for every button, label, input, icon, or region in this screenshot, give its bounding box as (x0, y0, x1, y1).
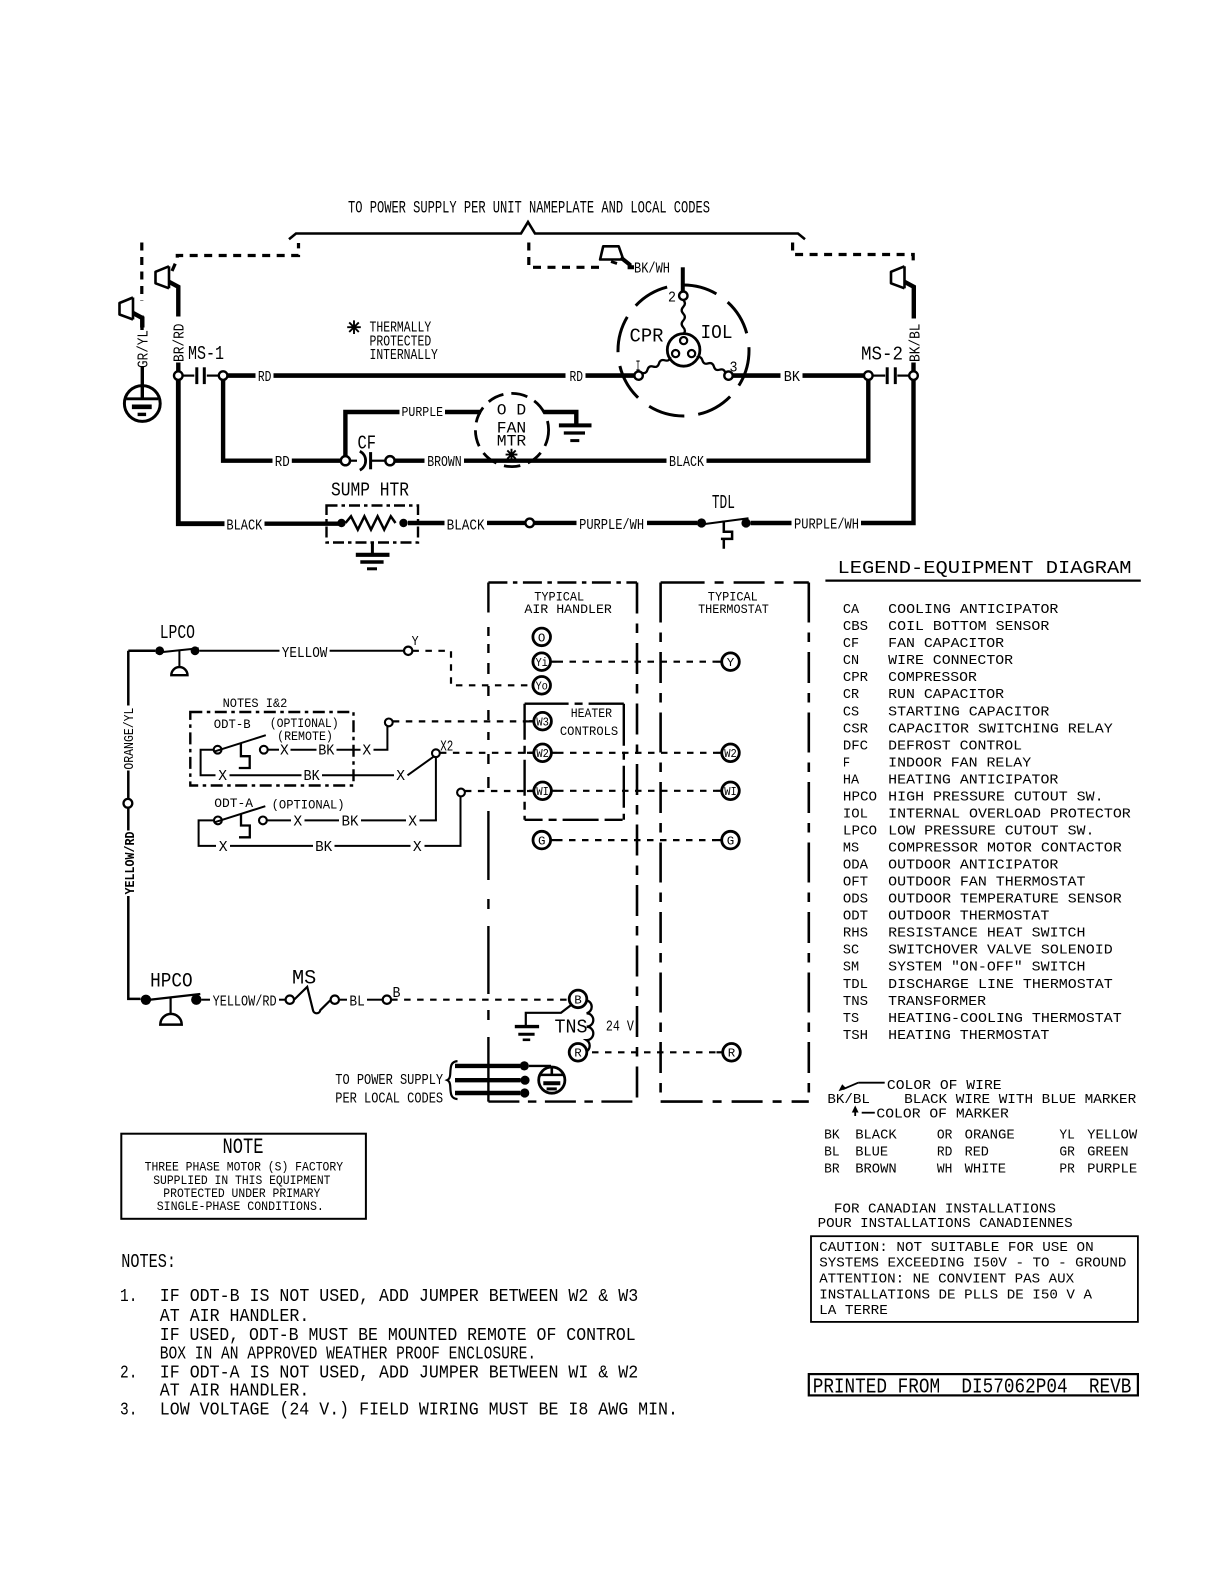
svg-text:INDOOR FAN RELAY: INDOOR FAN RELAY (888, 755, 1031, 771)
svg-text:WI: WI (724, 785, 737, 799)
wire to X2 (408, 756, 435, 776)
terminal YO air-handler (533, 677, 551, 695)
wire BK/WH to CPR terminal 2 (681, 267, 685, 291)
svg-text:MS-2: MS-2 (861, 344, 903, 366)
svg-text:TO POWER SUPPLY: TO POWER SUPPLY (335, 1071, 443, 1089)
svg-text:IF ODT-B IS NOT USED, ADD JUMP: IF ODT-B IS NOT USED, ADD JUMPER BETWEEN… (160, 1287, 638, 1307)
wire ODT-A out c (361, 819, 406, 821)
motor OD FAN MTR (475, 393, 548, 466)
heater SUMP HTR (327, 506, 419, 543)
svg-text:W2: W2 (724, 747, 737, 761)
svg-text:HIGH PRESSURE CUTOUT SW.: HIGH PRESSURE CUTOUT SW. (888, 789, 1103, 805)
svg-text:3.: 3. (120, 1401, 137, 1421)
svg-text:NOTES:: NOTES: (121, 1251, 176, 1273)
svg-text:2: 2 (668, 289, 676, 307)
svg-text:OUTDOOR ANTICIPATOR: OUTDOOR ANTICIPATOR (888, 858, 1059, 874)
wire to LPCO (128, 650, 155, 653)
coil MS (294, 987, 331, 1013)
connector CN flag BR/RD (156, 266, 179, 316)
winding CPR 2 (682, 300, 685, 334)
svg-text:ORANGE: ORANGE (965, 1128, 1015, 1144)
enclosure TYPICAL AIR HANDLER (488, 583, 637, 1102)
svg-text:TSH: TSH (843, 1028, 868, 1044)
power supply bracket (289, 222, 805, 239)
wire YELLOW b (330, 650, 404, 652)
svg-text:BK: BK (342, 813, 360, 831)
svg-text:MS: MS (292, 968, 316, 991)
svg-text:BK: BK (784, 368, 801, 386)
svg-text:BK: BK (304, 767, 321, 785)
svg-text:CAPACITOR SWITCHING RELAY: CAPACITOR SWITCHING RELAY (888, 721, 1113, 737)
wire dashed R row (592, 1051, 717, 1053)
svg-text:RESISTANCE HEAT SWITCH: RESISTANCE HEAT SWITCH (888, 926, 1085, 942)
svg-text:WH: WH (937, 1161, 953, 1177)
wire ODT-A lower BK b (335, 845, 411, 847)
wire ODT-B lower BK b (322, 774, 394, 776)
svg-text:SYSTEMS EXCEEDING I50V - TO -: SYSTEMS EXCEEDING I50V - TO - GROUND (819, 1256, 1126, 1272)
svg-text:X: X (408, 813, 417, 831)
svg-text:BK/BL: BK/BL (827, 1092, 870, 1108)
svg-text:PURPLE/WH: PURPLE/WH (579, 516, 644, 534)
terminal R thermostat (723, 1044, 741, 1062)
svg-text:BLACK: BLACK (447, 517, 486, 535)
svg-text:R: R (574, 1047, 582, 1061)
pressure switch LPCO (155, 646, 199, 675)
wire dashed feeder to ground (GR/YL) (140, 243, 143, 302)
enclosure TYPICAL THERMOSTAT (661, 583, 809, 1102)
note box (121, 1134, 366, 1219)
wire dashed Y to YO (412, 651, 532, 686)
wire YELLOW a (199, 650, 279, 652)
svg-text:PROTECTED UNDER PRIMARY: PROTECTED UNDER PRIMARY (163, 1187, 320, 1201)
svg-text:BK/BL: BK/BL (906, 324, 924, 363)
terminal G air-handler (533, 831, 551, 849)
svg-text:OUTDOOR THERMOSTAT: OUTDOOR THERMOSTAT (888, 909, 1049, 925)
wire ODT-B out b (291, 749, 317, 751)
wire RD row1 c (586, 373, 635, 378)
wire ODT-A left leg (199, 820, 216, 846)
wire left rail upper (127, 651, 130, 706)
svg-text:AT AIR HANDLER.: AT AIR HANDLER. (160, 1307, 309, 1327)
wire to splice (487, 521, 525, 525)
wire RD row1 a (227, 373, 255, 378)
svg-text:COLOR OF MARKER: COLOR OF MARKER (876, 1107, 1009, 1123)
svg-text:F: F (843, 755, 850, 771)
svg-text:AIR HANDLER: AIR HANDLER (524, 602, 612, 617)
svg-text:CONTROLS: CONTROLS (560, 724, 618, 739)
svg-text:TNS: TNS (555, 1017, 588, 1039)
svg-text:HEATING THERMOSTAT: HEATING THERMOSTAT (888, 1028, 1049, 1044)
svg-text:RUN CAPACITOR: RUN CAPACITOR (888, 687, 1004, 703)
svg-text:BLACK: BLACK (226, 517, 263, 535)
svg-text:HEATING ANTICIPATOR: HEATING ANTICIPATOR (888, 772, 1059, 788)
ground G2 (earth, OD FAN MTR) (559, 425, 592, 440)
svg-text:RD: RD (275, 453, 290, 471)
wire dashed feeder to CPR (BK/WH) (529, 243, 600, 268)
svg-text:RD: RD (937, 1144, 953, 1160)
wire power entry 3 (455, 1091, 520, 1095)
wire PURPLE to motor (445, 410, 481, 414)
svg-text:OR: OR (937, 1128, 953, 1144)
svg-text:TDL: TDL (843, 977, 868, 993)
wire ODT-A out b (305, 819, 340, 821)
splice CN left rail (124, 799, 133, 808)
winding CPR 3 (697, 357, 726, 373)
svg-text:24 V: 24 V (606, 1018, 635, 1036)
svg-text:RD: RD (570, 368, 584, 386)
svg-text:OFT: OFT (843, 875, 868, 891)
svg-text:HEATER: HEATER (571, 706, 612, 721)
svg-text:COOLING ANTICIPATOR: COOLING ANTICIPATOR (888, 602, 1059, 618)
svg-text:YELLOW/RD: YELLOW/RD (123, 832, 139, 895)
terminal W3 air-handler (534, 712, 552, 730)
svg-text:I: I (636, 358, 641, 376)
color of wire callout (839, 1083, 885, 1092)
svg-text:HPCO: HPCO (150, 971, 193, 994)
winding TNS (586, 1000, 593, 1051)
svg-text:INSTALLATIONS DE PLLS DE I50 V: INSTALLATIONS DE PLLS DE I50 V A (819, 1287, 1092, 1303)
color of marker callout (852, 1106, 875, 1117)
svg-text:BK/WH: BK/WH (634, 260, 670, 278)
svg-text:CBS: CBS (843, 619, 868, 635)
svg-text:TDL: TDL (712, 492, 735, 514)
wire RD row2 (292, 459, 341, 463)
wire dashed feeder to MS-2 (BK/BL) (793, 243, 914, 266)
pressure switch HPCO (141, 994, 202, 1025)
svg-text:YELLOW/RD: YELLOW/RD (213, 993, 277, 1011)
wire PURPLE/WH to MS-2 (861, 380, 914, 523)
svg-text:AT AIR HANDLER.: AT AIR HANDLER. (160, 1382, 309, 1402)
svg-text:PURPLE/WH: PURPLE/WH (794, 516, 859, 534)
svg-text:SWITCHOVER VALVE SOLENOID: SWITCHOVER VALVE SOLENOID (888, 943, 1112, 959)
wire dashed X2 to W2 (440, 752, 527, 754)
svg-text:DEFROST CONTROL: DEFROST CONTROL (888, 738, 1022, 754)
svg-text:DFC: DFC (843, 738, 868, 754)
protector IOL (667, 334, 700, 367)
svg-text:CS: CS (843, 704, 859, 720)
svg-text:ODT: ODT (843, 909, 868, 925)
svg-text:CN: CN (843, 653, 859, 669)
svg-text:Y: Y (727, 656, 735, 670)
terminal R TNS (569, 1044, 587, 1062)
wire ODT-A out a (267, 819, 291, 821)
svg-text:INTERNALLY: INTERNALLY (370, 346, 438, 364)
splice CN (525, 519, 534, 528)
svg-text:SINGLE-PHASE CONDITIONS.: SINGLE-PHASE CONDITIONS. (157, 1200, 324, 1214)
wire flag BK/WH staff (621, 258, 634, 268)
capacitor CF (341, 451, 395, 470)
connector CN flag GR/YL (120, 298, 143, 328)
svg-text:LEGEND-EQUIPMENT DIAGRAM: LEGEND-EQUIPMENT DIAGRAM (838, 558, 1132, 579)
terminal W1 air-handler (534, 782, 552, 800)
svg-text:BK: BK (315, 838, 333, 856)
terminal B node (383, 996, 391, 1004)
caution box (811, 1236, 1138, 1322)
svg-text:SUPPLIED IN THIS EQUIPMENT: SUPPLIED IN THIS EQUIPMENT (153, 1174, 331, 1188)
wire dashed B row (391, 999, 569, 1001)
svg-text:ORANGE/YL: ORANGE/YL (122, 708, 138, 770)
svg-text:LPCO: LPCO (843, 824, 877, 840)
svg-text:POUR INSTALLATIONS CANADIENNES: POUR INSTALLATIONS CANADIENNES (818, 1216, 1073, 1232)
contactor contact MS-2 (864, 367, 918, 384)
terminal W1 thermostat (722, 782, 740, 800)
svg-text:O: O (538, 631, 546, 645)
enclosure HEATER CONTROLS (525, 704, 624, 820)
terminal W2 air-handler (534, 744, 552, 762)
svg-text:SYSTEM "ON-OFF" SWITCH: SYSTEM "ON-OFF" SWITCH (888, 960, 1085, 976)
svg-text:BROWN: BROWN (855, 1161, 897, 1177)
winding CPR 1 (642, 357, 671, 373)
svg-text:PURPLE: PURPLE (1087, 1161, 1137, 1177)
node W3 feed (385, 719, 393, 727)
motor asterisk (506, 449, 518, 461)
svg-text:G: G (538, 835, 546, 849)
wire PURPLE riser (345, 412, 399, 457)
svg-text:ODA: ODA (843, 858, 869, 874)
svg-text:BL: BL (824, 1144, 840, 1160)
svg-text:MS: MS (843, 841, 859, 857)
svg-text:BLACK: BLACK (669, 453, 705, 471)
svg-text:CF: CF (843, 636, 859, 652)
MS coil terminal left (286, 996, 294, 1004)
svg-text:RHS: RHS (843, 926, 868, 942)
svg-text:BLUE: BLUE (855, 1144, 888, 1160)
wire ODT-A lower BK a (230, 845, 313, 847)
svg-text:Yo: Yo (535, 680, 548, 694)
svg-text:W2: W2 (536, 747, 549, 761)
terminal O air-handler (533, 628, 551, 646)
wire BROWN/BLACK (464, 459, 667, 463)
svg-text:TS: TS (843, 1011, 859, 1027)
svg-text:PURPLE: PURPLE (402, 405, 444, 421)
svg-text:WIRE CONNECTOR: WIRE CONNECTOR (888, 653, 1013, 669)
wire dashed W2 row (557, 752, 716, 754)
svg-text:LOW PRESSURE CUTOUT SW.: LOW PRESSURE CUTOUT SW. (888, 824, 1094, 840)
svg-text:LOW VOLTAGE (24 V.) FIELD WIRI: LOW VOLTAGE (24 V.) FIELD WIRING MUST BE… (160, 1401, 678, 1421)
svg-text:PRINTED FROM DI57062P04 REVB: PRINTED FROM DI57062P04 REVB (813, 1375, 1132, 1399)
wire MS-1 to CF (RD) (223, 380, 272, 461)
compressor CPR dashed enclosure (618, 285, 749, 416)
svg-text:1.: 1. (120, 1287, 137, 1307)
svg-text:GR: GR (1059, 1144, 1075, 1160)
svg-text:YL: YL (1059, 1128, 1075, 1144)
wire motor to ground (544, 412, 577, 424)
svg-text:G: G (727, 835, 735, 849)
svg-text:Y: Y (412, 634, 419, 650)
svg-text:X: X (362, 742, 371, 760)
svg-text:X: X (218, 767, 227, 785)
wire left rail lower (128, 896, 140, 999)
svg-text:BLACK: BLACK (855, 1128, 897, 1144)
svg-text:RD: RD (258, 368, 272, 386)
wire dashed to W3 (393, 720, 527, 722)
svg-text:X: X (280, 742, 289, 760)
svg-text:IOL: IOL (843, 807, 868, 823)
svg-text:TO POWER SUPPLY PER UNIT NAMEP: TO POWER SUPPLY PER UNIT NAMEPLATE AND L… (348, 199, 710, 219)
CPR terminal 3 (724, 371, 732, 379)
svg-text:CR: CR (843, 687, 860, 703)
wire power entry 2 (455, 1078, 521, 1082)
wire BLACK sump b (408, 521, 445, 525)
contactor contact MS-1 (174, 367, 227, 384)
ground G1 (circle earth, GR/YL) (124, 386, 160, 422)
svg-text:BK: BK (318, 742, 335, 760)
wire BR/RD to MS-1 (176, 363, 180, 372)
wire PURPLE/WH a (534, 521, 576, 525)
svg-text:IOL: IOL (701, 322, 733, 344)
MS coil terminal right (331, 996, 339, 1004)
ground G3 (earth, sump htr) (356, 543, 390, 569)
wire BK row1 b (803, 373, 865, 378)
svg-text:MS-1: MS-1 (188, 343, 224, 365)
terminal Y thermostat (722, 653, 740, 671)
svg-text:NOTE: NOTE (223, 1134, 264, 1160)
svg-text:ODS: ODS (843, 892, 868, 908)
wire to YELLOW/RD label (202, 999, 211, 1001)
wire GR/YL upper (140, 316, 143, 331)
thermostat TDL (697, 518, 751, 548)
svg-text:HPCO: HPCO (843, 789, 877, 805)
svg-text:CSR: CSR (843, 721, 869, 737)
svg-text:BROWN: BROWN (427, 453, 462, 471)
svg-text:OUTDOOR TEMPERATURE SENSOR: OUTDOOR TEMPERATURE SENSOR (888, 892, 1122, 908)
svg-text:X: X (413, 838, 422, 856)
wire MS-1 to sump htr (BLACK) (178, 380, 224, 524)
svg-text:BLACK WIRE WITH BLUE MARKER: BLACK WIRE WITH BLUE MARKER (904, 1092, 1136, 1108)
svg-text:X: X (396, 767, 405, 785)
svg-text:ATTENTION: NE CONVIENT PAS AUX: ATTENTION: NE CONVIENT PAS AUX (819, 1272, 1074, 1288)
CPR terminal 1 (634, 371, 642, 379)
node X2 (432, 749, 440, 757)
wire ODT-B out a (268, 749, 279, 751)
wire YELLOW/RD to MS (279, 999, 286, 1001)
printed-from box (809, 1374, 1138, 1395)
svg-text:X: X (293, 813, 302, 831)
svg-text:FOR CANADIAN INSTALLATIONS: FOR CANADIAN INSTALLATIONS (834, 1201, 1056, 1217)
wire dashed G row (556, 839, 716, 841)
svg-text:BK: BK (824, 1128, 840, 1144)
svg-text:PR: PR (1059, 1161, 1075, 1177)
svg-text:SM: SM (843, 960, 859, 976)
brace power entry (447, 1061, 457, 1099)
svg-text:THERMOSTAT: THERMOSTAT (698, 602, 769, 617)
terminal B TNS (569, 990, 587, 1008)
wire BLACK sump a (265, 522, 340, 526)
CPR terminal 2 (679, 292, 687, 300)
wire PURPLE/WH c (751, 521, 792, 525)
svg-text:SUMP HTR: SUMP HTR (331, 480, 409, 502)
svg-text:YELLOW: YELLOW (282, 644, 328, 662)
svg-text:Yi: Yi (535, 656, 548, 670)
svg-text:IF USED, ODT-B MUST BE MOUNTED: IF USED, ODT-B MUST BE MOUNTED REMOTE OF… (160, 1326, 636, 1346)
svg-text:B: B (574, 993, 582, 1007)
svg-text:ODT-A: ODT-A (214, 796, 253, 811)
svg-text:BOX IN AN APPROVED WEATHER PRO: BOX IN AN APPROVED WEATHER PROOF ENCLOSU… (160, 1345, 536, 1365)
ground G5 (circle earth, power entry) (539, 1067, 565, 1093)
wire left rail mid (127, 771, 130, 799)
wire PURPLE/WH b (647, 521, 697, 525)
svg-text:INTERNAL OVERLOAD PROTECTOR: INTERNAL OVERLOAD PROTECTOR (888, 807, 1131, 823)
wire ODT-B out c (337, 749, 361, 751)
svg-text:(OPTIONAL): (OPTIONAL) (272, 798, 345, 813)
legend underline (825, 579, 1140, 581)
svg-text:ODT-B: ODT-B (214, 717, 251, 732)
svg-text:OUTDOOR FAN THERMOSTAT: OUTDOOR FAN THERMOSTAT (888, 875, 1085, 891)
svg-text:CPR: CPR (630, 326, 664, 348)
svg-text:CA: CA (843, 602, 860, 618)
svg-text:TRANSFORMER: TRANSFORMER (888, 994, 986, 1010)
wire left rail mid2 (127, 808, 130, 831)
terminal Y1 air-handler (533, 653, 551, 671)
svg-text:BR: BR (824, 1161, 840, 1177)
terminal Y node (404, 647, 412, 655)
svg-text:STARTING CAPACITOR: STARTING CAPACITOR (888, 704, 1050, 720)
svg-text:NOTES I&2: NOTES I&2 (223, 696, 288, 711)
wire ODT-A lower to W1 node (425, 796, 461, 846)
svg-text:PER LOCAL CODES: PER LOCAL CODES (335, 1090, 443, 1108)
wire BLACK to MS-2 (707, 380, 869, 461)
svg-text:W3: W3 (536, 716, 549, 730)
svg-text:2.: 2. (120, 1364, 137, 1384)
svg-text:GREEN: GREEN (1087, 1144, 1129, 1160)
svg-text:X: X (219, 838, 228, 856)
wire dashed to W1 (465, 790, 527, 792)
node W1 feed (457, 789, 465, 797)
wire ODT-B lower BK a (230, 774, 302, 776)
svg-text:LPCO: LPCO (160, 622, 195, 644)
svg-text:WI: WI (536, 785, 549, 799)
switch ODT-B (214, 735, 268, 768)
wire X2 down to ODT-A (435, 757, 437, 820)
wire dashed Y1 to Y (557, 661, 717, 663)
svg-text:LA TERRE: LA TERRE (819, 1303, 888, 1319)
note thermally protected (347, 320, 361, 334)
ground G4 (TNS) (515, 1006, 571, 1040)
svg-text:O D: O D (497, 401, 526, 419)
svg-text:COIL BOTTOM SENSOR: COIL BOTTOM SENSOR (888, 619, 1050, 635)
wire ODT-B to W3 node (374, 726, 388, 750)
svg-text:BR/RD: BR/RD (170, 324, 188, 363)
svg-text:SC: SC (843, 943, 859, 959)
svg-text:COMPRESSOR MOTOR CONTACTOR: COMPRESSOR MOTOR CONTACTOR (888, 841, 1122, 857)
wire BROWN a (395, 459, 425, 463)
svg-text:HEATING-COOLING THERMOSTAT: HEATING-COOLING THERMOSTAT (888, 1011, 1121, 1027)
outdoor thermostat ODT-B enclosure (190, 712, 353, 786)
connector CN flag BK/WH (top) (600, 246, 623, 259)
svg-text:BL: BL (349, 993, 364, 1011)
wire RD row1 b (274, 373, 566, 378)
wire GR/YL to ground (141, 367, 144, 399)
wire ODT-B left leg (201, 750, 216, 776)
svg-text:TNS: TNS (843, 994, 868, 1010)
wire ODT-A out d (420, 819, 437, 821)
svg-text:DISCHARGE LINE THERMOSTAT: DISCHARGE LINE THERMOSTAT (888, 977, 1112, 993)
svg-text:YELLOW: YELLOW (1087, 1128, 1138, 1144)
connector CN flag BK/BL (891, 266, 914, 318)
svg-text:CPR: CPR (843, 670, 869, 686)
svg-text:GR/YL: GR/YL (134, 330, 152, 368)
svg-text:HA: HA (843, 772, 860, 788)
terminal W2 thermostat (722, 744, 740, 762)
svg-text:3: 3 (730, 359, 738, 377)
terminal G thermostat (722, 831, 740, 849)
wire dashed feeder to MS-1 (BR/RD) (172, 243, 299, 271)
svg-text:RED: RED (965, 1144, 989, 1160)
svg-text:CAUTION: NOT SUITABLE FOR USE: CAUTION: NOT SUITABLE FOR USE ON (819, 1240, 1093, 1256)
svg-text:COMPRESSOR: COMPRESSOR (888, 670, 977, 686)
wire dashed W1 row (557, 790, 716, 792)
switch ODT-A (214, 806, 267, 837)
